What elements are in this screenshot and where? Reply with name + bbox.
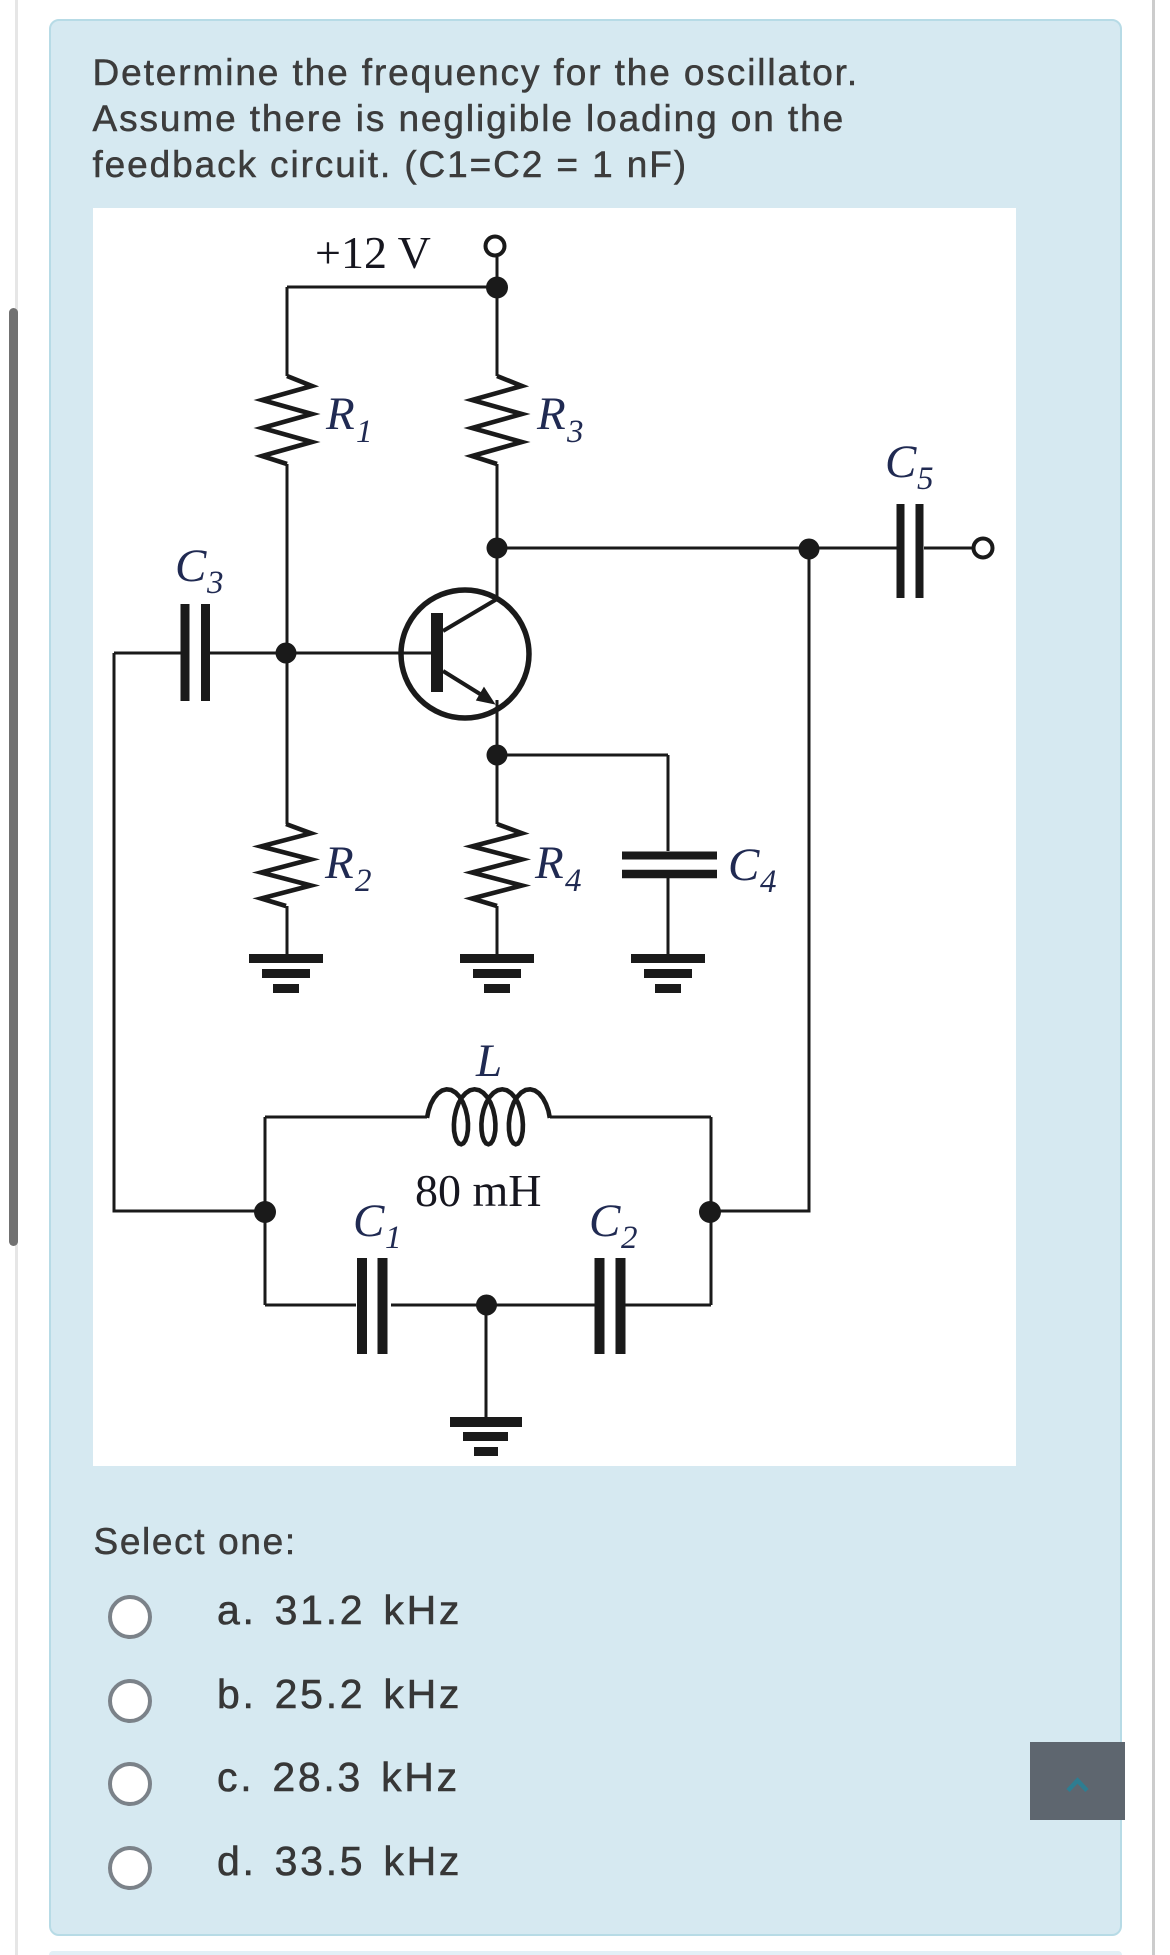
svg-text:R: R: [324, 837, 354, 889]
svg-text:R: R: [536, 388, 566, 440]
svg-text:C: C: [175, 540, 207, 592]
svg-text:2: 2: [355, 863, 372, 899]
svg-text:R: R: [534, 837, 564, 889]
svg-text:2: 2: [621, 1220, 638, 1256]
svg-text:5: 5: [917, 461, 934, 497]
svg-text:4: 4: [760, 864, 777, 900]
svg-text:3: 3: [206, 565, 224, 601]
svg-text:1: 1: [385, 1220, 402, 1256]
svg-text:+12 V: +12 V: [315, 227, 431, 278]
svg-text:3: 3: [566, 414, 584, 450]
svg-text:C: C: [885, 436, 917, 488]
svg-text:C: C: [589, 1195, 621, 1247]
svg-text:L: L: [475, 1035, 502, 1087]
svg-text:R: R: [325, 388, 355, 440]
svg-text:1: 1: [356, 414, 373, 450]
svg-text:C: C: [353, 1195, 385, 1247]
svg-text:4: 4: [565, 863, 582, 899]
svg-text:80 mH: 80 mH: [415, 1165, 542, 1216]
svg-text:C: C: [728, 839, 760, 891]
